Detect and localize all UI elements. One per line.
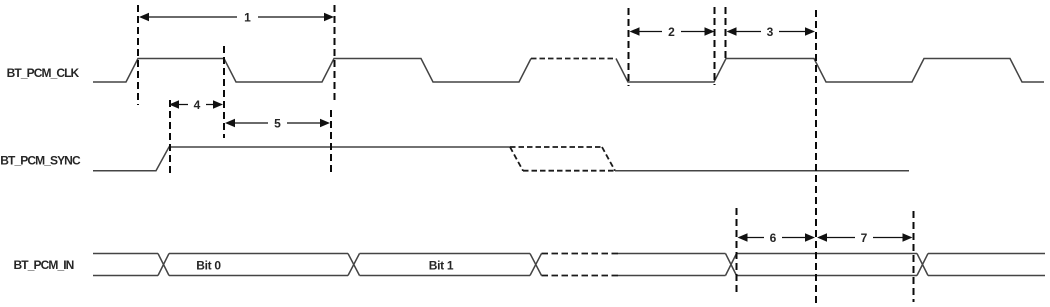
wire BT_PCM_CLK waveform solid segments [93,59,531,83]
svg-text:BT_PCM_IN: BT_PCM_IN [14,258,74,272]
dimension arrow 5 [234,122,321,124]
wire BT_PCM_IN bus segment 5 [737,254,918,276]
node bus crossover X2 [348,254,360,276]
wire BT_PCM_CLK waveform continued [616,59,1044,83]
wire BT_PCM_IN bus segment 6 [928,254,1045,276]
svg-text:Bit 1: Bit 1 [429,259,454,273]
wire BT_PCM_IN bus segment 1 [93,254,158,276]
wire BT_PCM_IN bus dashed segment [542,254,619,276]
guide dashed line H at x=736.5 [736,208,738,295]
guide dashed line C upper at x=334.5 [334,5,336,104]
guide dashed line F at x=725.5 [725,7,727,59]
svg-text:6: 6 [770,231,777,245]
wire BT_PCM_IN bus segment Bit 0 [169,254,348,276]
dimension arrow 6 [747,237,807,239]
node bus crossover X3 [530,254,542,276]
node bus crossover X1 [158,254,169,276]
svg-text:4: 4 [194,98,201,112]
svg-text:7: 7 [861,231,868,245]
guide dashed line G at x=816 [815,10,817,306]
guide dashed line D at x=628.5 [628,8,630,86]
dimension arrow 3 [736,31,807,33]
dimension arrow 2 [639,31,706,33]
guide dashed line E at x=714.5 [714,7,716,85]
dimension arrow 7 [826,237,904,239]
guide dashed line C2 lower at x=331 [330,110,332,176]
guide dashed line A at x=138 [137,5,139,105]
guide dashed line B at x=224 [223,46,225,138]
wire BT_PCM_IN bus segment Bit 1 [360,254,531,276]
wire BT_PCM_SYNC waveform solid left [93,147,510,171]
svg-text:2: 2 [668,25,675,39]
wire BT_PCM_CLK dashed high segment [531,58,616,60]
svg-text:1: 1 [244,11,251,25]
svg-text:Bit 0: Bit 0 [196,259,221,273]
guide dashed line I at x=913.5 [913,211,915,302]
node bus crossover X4 [726,254,737,276]
dimension arrow 1 [148,16,325,18]
node bus crossover X5 [917,254,928,276]
svg-text:BT_PCM_SYNC: BT_PCM_SYNC [0,154,81,168]
svg-text:3: 3 [767,25,774,39]
wire BT_PCM_SYNC waveform solid right [615,170,909,172]
wire BT_PCM_SYNC dashed parallelogram [510,147,615,171]
svg-text:5: 5 [274,117,281,131]
wire BT_PCM_IN bus segment 4 [618,254,726,276]
svg-text:BT_PCM_CLK: BT_PCM_CLK [7,66,80,80]
dimension arrow 4 [178,104,214,106]
guide dashed line at x=170 sync rise [169,100,171,176]
